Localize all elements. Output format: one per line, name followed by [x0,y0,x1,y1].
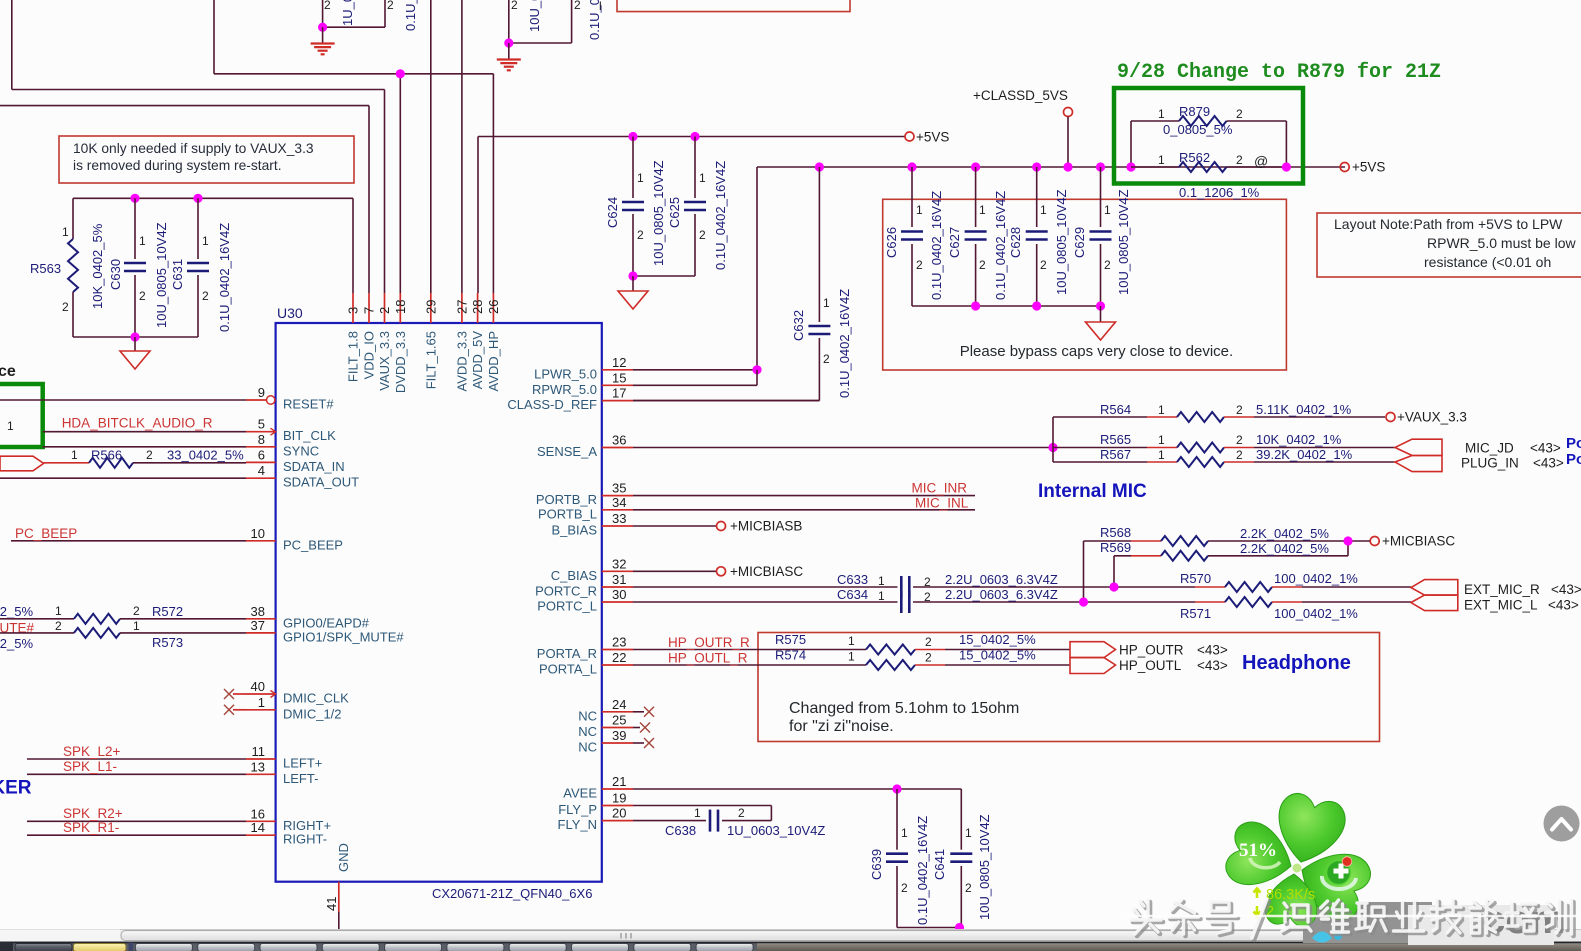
svg-text:LEFT-: LEFT- [283,771,318,786]
pin 11 LEFT+ (left) [246,744,322,771]
wire LPWR_5.0 / RPWR_5.0 to rail [633,365,762,385]
svg-text:18: 18 [393,300,408,314]
pin 5 BIT_CLK (left) [246,417,336,444]
svg-text:31: 31 [612,572,626,587]
capacitor 0.1U (cut off at top), pin 2 [509,0,602,43]
svg-text:38: 38 [251,604,265,619]
svg-text:1: 1 [637,171,644,185]
svg-text:1: 1 [1158,448,1165,462]
svg-text:0.1U_0402_16V4Z: 0.1U_0402_16V4Z [217,223,232,332]
svg-text:39: 39 [612,728,626,743]
wire FLY_P net [633,806,771,821]
svg-text:R562: R562 [1179,150,1210,165]
svg-text:+MICBIASB: +MICBIASB [730,519,802,534]
pin 9 RESET# (left) [246,385,334,412]
svg-text:9: 9 [258,385,265,400]
svg-text:+CLASSD_5VS: +CLASSD_5VS [973,88,1068,103]
svg-text:33: 33 [612,511,626,526]
svg-text:40: 40 [251,679,265,694]
svg-text:B_BIAS: B_BIAS [551,523,597,538]
svg-text:R575: R575 [775,632,806,647]
ground (earth triangle) under bypass caps [1086,301,1116,340]
ground (signal) for top-left caps [311,23,335,55]
label Internal MIC [1038,481,1147,502]
label Headphone [1242,652,1351,674]
clover widget [1222,790,1376,928]
svg-text:0.1U_0402_16V4Z: 0.1U_0402_16V4Z [915,816,930,925]
wire net to pin27 AVDD_3.3 [461,0,463,293]
svg-text:1: 1 [1158,403,1165,417]
svg-text:R563: R563 [30,261,61,276]
svg-text:17: 17 [612,386,626,401]
wire/label HP_OUTR_R and resistor R575 [633,632,1070,655]
svg-text:16: 16 [251,806,265,821]
svg-text:FLY_P: FLY_P [558,802,597,817]
capacitor C628 [1008,162,1069,306]
svg-text:2: 2 [699,228,706,242]
svg-text:C624: C624 [605,197,620,228]
svg-text:C632: C632 [791,310,806,341]
pin 8 SYNC (left) [246,432,319,459]
pin 15 RPWR_5.0 (right) [532,370,633,397]
svg-text:C633: C633 [837,572,868,587]
svg-text:R574: R574 [775,648,806,663]
capacitor 0.1U (cut off at top), pin 2 [323,0,418,31]
svg-text:C639: C639 [869,849,884,880]
pin 35 PORTB_R (right) [536,481,633,508]
capacitor C638 (FLY_N) [633,806,825,838]
wire/label SPK_L1- [27,759,246,774]
svg-text:C_BIAS: C_BIAS [551,568,598,583]
svg-text:2: 2 [324,0,331,12]
svg-text:10U_0805_10V4Z: 10U_0805_10V4Z [1116,189,1131,295]
svg-text:11: 11 [252,744,266,759]
svg-text:C634: C634 [837,587,868,602]
svg-text:R570: R570 [1180,571,1211,586]
svg-text:7: 7 [362,307,377,314]
resistor R568 [1079,525,1348,607]
note box (cut off at top right) [617,0,850,12]
svg-text:2: 2 [1236,153,1243,167]
svg-text:RPWR_5.0: RPWR_5.0 [532,382,597,397]
pin 6 SDATA_IN (left) [246,447,345,474]
svg-text:R571: R571 [1180,606,1211,621]
resistor R566 [44,448,246,468]
svg-text:DVDD_3.3: DVDD_3.3 [393,331,408,393]
svg-text:VDD_IO: VDD_IO [362,331,377,379]
svg-text:+5VS: +5VS [916,130,949,145]
svg-text:RIGHT+: RIGHT+ [283,818,331,833]
svg-text:1: 1 [979,203,986,217]
svg-text:0.1U_0402_16V4Z: 0.1U_0402_16V4Z [993,191,1008,300]
svg-text:U30: U30 [277,305,303,321]
pin 14 RIGHT- (left) [246,820,327,847]
pin 18 DVDD_3.3 (top) [393,293,408,393]
svg-text:2_5%: 2_5% [0,604,33,619]
svg-text:HP_OUTR_R: HP_OUTR_R [668,635,750,650]
svg-text:2.2U_0603_6.3V4Z: 2.2U_0603_6.3V4Z [945,572,1058,587]
svg-text:EXT_MIC_L: EXT_MIC_L [1464,598,1538,613]
pin 19 FLY_P (right) [558,791,633,818]
svg-text:1: 1 [1040,203,1047,217]
pin 38 GPIO0/EAPD# (left) [246,604,370,631]
resistor R565 [1053,432,1395,453]
scroll-to-top button [1544,806,1580,842]
svg-text:4: 4 [258,463,265,478]
svg-text:1: 1 [1104,203,1111,217]
svg-text:10K_0402_1%: 10K_0402_1% [1256,432,1342,447]
wire SYNC net [43,446,246,448]
svg-text:PORTA_L: PORTA_L [539,662,597,677]
resistor R573 [0,619,246,651]
svg-text:1: 1 [916,203,923,217]
capacitor C626 [884,162,944,306]
svg-text:2: 2 [202,289,209,303]
svg-text:+MICBIASC: +MICBIASC [1382,534,1455,549]
svg-text:51%: 51% [1239,840,1277,861]
watermark backing block and .com text [1408,898,1565,945]
capacitor 1U (cut off at top), pin 2 [323,0,355,27]
svg-text:37: 37 [251,618,265,633]
svg-text:2: 2 [916,258,923,272]
pin 27 AVDD_3.3 (top) [454,293,469,391]
svg-text:10: 10 [251,526,265,541]
svg-text:1: 1 [202,234,209,248]
svg-text:C629: C629 [1072,227,1087,258]
svg-text:5: 5 [258,417,265,432]
wire +5VS net (to pin 28 AVDD_5V) [478,137,905,294]
watermark text (vector strokes) [1133,901,1574,940]
svg-text:36: 36 [612,433,626,448]
wire C639/C641 bottom rail [897,923,964,932]
resistor R879 [1131,104,1286,167]
power port +5VS (right) [1340,160,1385,175]
svg-text:1U_0603_10V4Z: 1U_0603_10V4Z [340,0,355,26]
svg-text:HP_OUTL: HP_OUTL [1119,658,1182,673]
svg-text:FILT_1.65: FILT_1.65 [423,331,438,389]
svg-text:2: 2 [1236,107,1243,121]
pin 32 C_BIAS (right) [551,556,633,583]
svg-text:100_0402_1%: 100_0402_1% [1274,606,1358,621]
svg-text:10U_0805_10V4Z: 10U_0805_10V4Z [651,160,666,266]
svg-text:86.3K/s: 86.3K/s [1266,887,1315,903]
harpoon connector HP_OUTR / HP_OUTL [1070,642,1228,674]
note: 10K only needed [59,136,354,183]
svg-text:PORTB_R: PORTB_R [536,492,597,507]
svg-text:<43>: <43> [1530,441,1561,456]
pin 12 LPWR_5.0 (right) [534,355,633,382]
svg-text:2: 2 [637,228,644,242]
svg-text:1: 1 [694,806,701,820]
svg-text:RIGHT-: RIGHT- [283,832,327,847]
svg-text:MIC_INL: MIC_INL [915,495,969,510]
svg-text:0.1_1206_1%: 0.1_1206_1% [1179,185,1260,200]
annotation: 9/28 Change to R879 for 21Z [1117,61,1441,84]
pin 33 B_BIAS (right) [551,511,633,538]
pin 23 PORTA_R (right) [537,635,633,662]
svg-text:28: 28 [470,300,485,314]
svg-text:1: 1 [258,695,265,710]
svg-text:PORTA_R: PORTA_R [537,646,597,661]
svg-text:2: 2 [377,307,392,314]
svg-text:<43>: <43> [1197,658,1228,673]
svg-text:MIC_INR: MIC_INR [912,480,968,495]
label ce (cut) [0,363,16,380]
svg-text:41: 41 [324,897,339,911]
svg-text:1: 1 [1158,153,1165,167]
wire bypass caps bottom rail [912,301,1101,310]
svg-text:0_0805_5%: 0_0805_5% [1163,122,1233,137]
svg-text:LEFT+: LEFT+ [283,756,322,771]
svg-text:1: 1 [901,826,908,840]
svg-text:10K_0402_5%: 10K_0402_5% [90,223,105,309]
svg-text:GND: GND [336,843,351,872]
svg-text:2.2K_0402_5%: 2.2K_0402_5% [1240,541,1329,556]
svg-text:Changed from 5.1ohm to 15ohm: Changed from 5.1ohm to 15ohm [789,700,1019,717]
svg-text:C626: C626 [884,227,899,258]
wire/label HP_OUTL_R and resistor R574 [633,648,1070,671]
svg-text:NC: NC [578,724,597,739]
svg-text:1: 1 [848,650,855,664]
svg-text:2: 2 [146,448,153,462]
svg-text:LPWR_5.0: LPWR_5.0 [534,366,597,381]
svg-text:2.2K_0402_5%: 2.2K_0402_5% [1240,526,1329,541]
pin 39 NC (right) [578,728,633,755]
svg-text:39.2K_0402_1%: 39.2K_0402_1% [1256,447,1353,462]
pin 1 DMIC_1/2 (left) [246,695,342,722]
svg-text:for "zi zi"noise.: for "zi zi"noise. [789,718,894,735]
svg-text:23: 23 [612,635,626,650]
svg-text:26: 26 [486,300,501,314]
svg-text:VAUX_3.3: VAUX_3.3 [377,331,392,391]
ground (earth triangle) under C624/C625 [618,271,648,309]
svg-text:C641: C641 [932,849,947,880]
svg-text:ce: ce [0,363,16,380]
svg-text:1: 1 [139,234,146,248]
svg-text:2: 2 [574,0,581,12]
note: Layout Note [1317,213,1581,277]
svg-text:2: 2 [1236,403,1243,417]
harpoon connector SDATA_IN (left) [0,456,44,471]
svg-text:AVEE: AVEE [563,786,597,801]
pin 22 PORTA_L (right) [539,650,633,677]
svg-text:Please bypass caps very close: Please bypass caps very close to device. [960,343,1233,360]
resistor R570 [1180,571,1411,592]
svg-text:2: 2 [511,0,518,12]
svg-text:29: 29 [423,300,438,314]
wire SENSE_A net [633,417,1058,462]
power port +MICBIASB (B_BIAS) [633,519,802,534]
wire/label MIC_INL [633,495,975,510]
svg-text:PC_BEEP: PC_BEEP [283,537,343,552]
svg-text:1: 1 [55,604,62,618]
pin 26 AVDD_HP (top) [486,293,501,391]
svg-text:Po: Po [1566,435,1581,452]
svg-text:34: 34 [612,495,626,510]
resistor R563 [30,198,105,337]
pin 34 PORTB_L (right) [538,495,633,522]
label Po / Po (cut at right) [1566,435,1581,468]
svg-text:BIT_CLK: BIT_CLK [283,428,336,443]
svg-text:24: 24 [612,697,626,712]
svg-text:<43>: <43> [1197,643,1228,658]
capacitor C639 [869,789,930,928]
power port +CLASSD_5VS [973,88,1073,172]
svg-text:+MICBIASC: +MICBIASC [730,564,803,579]
svg-text:R567: R567 [1100,447,1131,462]
label KER (SPEAKER cut) [0,778,32,799]
svg-text:2: 2 [901,881,908,895]
svg-text:l: l [599,0,602,13]
svg-text:PLUG_IN: PLUG_IN [1461,456,1519,471]
svg-text:3: 3 [346,307,361,314]
svg-text:<43>: <43> [1551,582,1581,597]
svg-text:2: 2 [823,352,830,366]
svg-text:100_0402_1%: 100_0402_1% [1274,571,1358,586]
no-connect X pin 24 [633,707,654,717]
svg-text:2: 2 [1236,448,1243,462]
text fragment (cut) [599,0,602,13]
svg-text:RESET#: RESET# [283,397,334,412]
pin 40 DMIC_CLK (left) [246,679,349,706]
svg-text:10U_0805_10V4Z: 10U_0805_10V4Z [977,814,992,920]
svg-text:2: 2 [979,258,986,272]
svg-text:10U_0805_10V4Z: 10U_0805_10V4Z [154,222,169,328]
svg-text:9/28 Change to R879 for 21Z: 9/28 Change to R879 for 21Z [1117,61,1441,84]
ground (earth triangle) under C630 group [120,332,150,369]
svg-text:MIC_JD: MIC_JD [1465,441,1514,456]
resistor R572 [0,604,246,624]
svg-text:2: 2 [387,0,394,12]
svg-text:R573: R573 [152,635,183,650]
note box: Please bypass caps [883,199,1287,370]
pin 20 FLY_N (right) [558,806,634,833]
svg-text:2: 2 [925,651,932,665]
pin 29 FILT_1.65 (top) [423,293,438,389]
capacitor C641 [932,814,992,927]
resistor R567 [1053,447,1395,467]
pin 2 VAUX_3.3 (top) [377,293,392,391]
svg-text:2: 2 [139,289,146,303]
wire CLASS-D_REF to C632 [633,400,819,402]
svg-text:resistance (<0.01 oh: resistance (<0.01 oh [1424,254,1551,270]
svg-text:<43>: <43> [1548,598,1579,613]
svg-text:Po: Po [1566,451,1581,468]
svg-text:1: 1 [1158,107,1165,121]
svg-text:15_0402_5%: 15_0402_5% [959,648,1036,663]
pin 37 GPIO1/SPK_MUTE# (left) [246,618,404,645]
wire LPWR/RPWR_5.0 rail to R562 [757,167,1345,370]
svg-text:C630: C630 [108,259,123,290]
svg-text:1: 1 [133,619,140,633]
pin 30 PORTC_L (right) [537,587,633,614]
svg-text:FILT_1.8: FILT_1.8 [346,331,361,382]
wire FILT_1.8 net rails [73,198,353,337]
no-connect X and wire DMIC_CLK [224,689,246,699]
svg-text:CX20671-21Z_QFN40_6X6: CX20671-21Z_QFN40_6X6 [432,886,592,901]
wire/label MIC_INR [633,480,975,495]
svg-text:PORTC_L: PORTC_L [537,599,597,614]
svg-text:C628: C628 [1008,227,1023,258]
svg-text:EXT_MIC_R: EXT_MIC_R [1464,582,1540,597]
svg-text:SPK_L2+: SPK_L2+ [63,744,121,759]
svg-text:NC: NC [578,740,597,755]
power port +MICBIASC (right) [1343,534,1455,549]
svg-text:+5VS: +5VS [1352,160,1385,175]
svg-text:33_0402_5%: 33_0402_5% [167,448,244,463]
svg-text:25: 25 [612,713,626,728]
svg-text:AVDD_5V: AVDD_5V [470,331,485,390]
svg-text:DMIC_1/2: DMIC_1/2 [283,706,342,721]
svg-text:R572: R572 [152,604,183,619]
pin 3 FILT_1.8 (top) [346,293,361,382]
op-amp/codec U30 CX20671 body [276,305,602,901]
svg-text:C631: C631 [170,259,185,290]
svg-text:32: 32 [612,556,626,571]
svg-text:2: 2 [925,635,932,649]
svg-text:PC_BEEP: PC_BEEP [15,526,77,541]
svg-text:R565: R565 [1100,432,1131,447]
harpoon connector MIC_JD / PLUG_IN [1395,439,1564,471]
svg-text:1: 1 [848,634,855,648]
capacitor C625 [633,132,728,276]
svg-text:2: 2 [924,575,931,589]
svg-text:8: 8 [258,432,265,447]
svg-text:10U_0805_10V4Z: 10U_0805_10V4Z [1054,189,1069,295]
svg-text:SPK_R1-: SPK_R1- [63,820,119,835]
green change box (left, cut off) [0,384,43,447]
svg-text:30: 30 [612,587,626,602]
svg-text:+VAUX_3.3: +VAUX_3.3 [1397,410,1467,425]
wire/label SPK_R2+ [27,806,246,821]
svg-text:12: 12 [612,355,626,370]
pin 16 RIGHT+ (left) [246,806,331,833]
svg-text:R879: R879 [1179,104,1210,119]
svg-text:GPIO1/SPK_MUTE#: GPIO1/SPK_MUTE# [283,629,404,644]
pin 25 NC (right) [578,713,633,740]
svg-text:0.1U_0402_16V4Z: 0.1U_0402_16V4Z [713,161,728,270]
svg-text:@: @ [1254,153,1268,169]
svg-text:2: 2 [1236,433,1243,447]
svg-text:27: 27 [454,300,469,314]
pin 21 AVEE (right) [563,774,633,801]
svg-text:CLASS-D_REF: CLASS-D_REF [507,397,597,412]
svg-text:SDATA_OUT: SDATA_OUT [283,475,359,490]
svg-text:AVDD_HP: AVDD_HP [486,331,501,391]
svg-text:2: 2 [738,806,745,820]
svg-text:HDA_BITCLK_AUDIO_R: HDA_BITCLK_AUDIO_R [62,416,213,431]
svg-text:2: 2 [133,604,140,618]
svg-text:Internal MIC: Internal MIC [1038,481,1147,502]
svg-text:SENSE_A: SENSE_A [537,444,597,459]
svg-text:22: 22 [612,650,626,665]
scrollbar thumb [121,931,1387,941]
svg-text:C625: C625 [667,197,682,228]
no-connect X and wire DMIC_1/2 [224,705,246,715]
wire/label SPK_R1- [27,820,246,835]
wire net to pin29 FILT_1.65 [430,0,432,293]
svg-text:2: 2 [1104,258,1111,272]
wire/label PC_BEEP [11,526,246,541]
svg-text:GPIO0/EAPD#: GPIO0/EAPD# [283,615,370,630]
svg-text:DMIC_CLK: DMIC_CLK [283,691,349,706]
svg-text:2: 2 [965,881,972,895]
svg-text:2.2U_0603_6.3V4Z: 2.2U_0603_6.3V4Z [945,587,1058,602]
svg-text:6: 6 [258,447,265,462]
resistor R569 [1100,540,1348,592]
svg-text:10K only needed if supply to V: 10K only needed if supply to VAUX_3.3 [73,141,314,156]
pin 10 PC_BEEP (left) [246,526,343,553]
